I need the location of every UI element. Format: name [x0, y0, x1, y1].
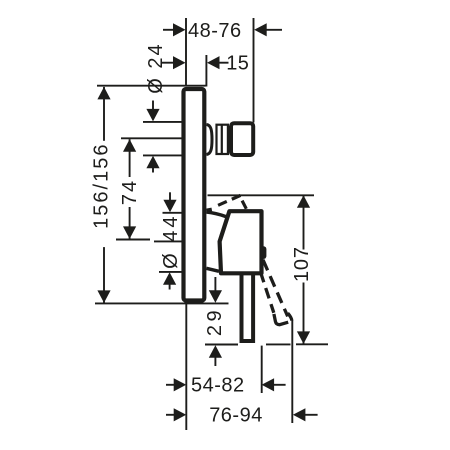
lever rod	[242, 266, 254, 341]
dim line 76-94 right tail	[304, 414, 318, 416]
tick handle axis	[154, 240, 182, 242]
ext line lever-down tip (76-94 right)	[291, 321, 293, 424]
tick knob top	[143, 121, 182, 123]
dim line O44 top tail	[169, 192, 171, 201]
svg-text:Ø 44: Ø 44	[160, 214, 182, 269]
ext line rod bottom right (107 bottom)	[296, 343, 328, 345]
svg-text:48-76: 48-76	[188, 20, 242, 42]
dim line 156/156 upper	[103, 87, 105, 141]
cone top	[206, 212, 226, 217]
dim line 15 right tail	[218, 62, 229, 64]
dim line 74 top	[129, 139, 131, 177]
arrow 15 right	[207, 56, 220, 69]
knob neck bulge	[207, 125, 213, 155]
arrow 54-82 right	[262, 378, 275, 391]
ext line plate front face (15 dim)	[205, 55, 207, 87]
svg-text:74: 74	[119, 179, 141, 205]
ext line plate bottom	[95, 302, 229, 304]
dashed lever up: tip dash at plate	[206, 209, 211, 210]
arrow 107 down	[297, 331, 310, 344]
ext line rod bottom left	[205, 344, 238, 346]
dashed lever down: tip cap	[274, 314, 288, 325]
tick 74 bottom	[116, 239, 150, 241]
ext line lever-up apex (107 top)	[208, 194, 315, 196]
handle body	[220, 211, 262, 273]
dim line O24 top tail	[152, 101, 154, 111]
dim line O24 bottom tail	[152, 167, 154, 173]
lever pivot nub	[260, 246, 266, 259]
arrow O24 up	[146, 156, 159, 169]
svg-text:107: 107	[291, 246, 313, 282]
arrow 107 up	[297, 195, 310, 208]
arrow O24 down	[146, 109, 159, 122]
ext line back face bottom (54-82/76-94 left)	[185, 304, 187, 431]
arrow 15 left	[173, 56, 186, 69]
tick handle top	[163, 212, 182, 214]
knob ring	[217, 125, 228, 154]
dim line 156/156 lower	[103, 247, 105, 303]
dim line 76-94 left tail	[166, 414, 174, 416]
dim line 54-82 left tail	[166, 384, 174, 386]
arrow 156 up	[97, 87, 110, 100]
ext line knob face (48-76 right)	[253, 18, 255, 123]
dashed lever down: tip right dash	[288, 313, 292, 321]
arrow 76-94 right	[293, 408, 306, 421]
dim line 74 bottom	[129, 207, 131, 239]
arrow 74 up	[123, 139, 136, 152]
dim line 29 top	[214, 277, 216, 291]
dim line O44 bottom tail	[169, 283, 171, 290]
knob head	[231, 123, 253, 155]
arrow 76-94 left	[174, 408, 187, 421]
dim line 48-76 right tail	[264, 29, 282, 31]
dashed lever down: left edge	[260, 272, 273, 313]
tick knob center	[121, 137, 182, 139]
arrow 48-76 left	[173, 23, 186, 36]
arrow 54-82 left	[174, 378, 187, 391]
arrow O44 up	[163, 272, 176, 285]
svg-text:54-82: 54-82	[191, 375, 245, 397]
tick handle bottom	[159, 271, 182, 273]
svg-text:29: 29	[204, 307, 226, 336]
dim line 54-82 right tail	[273, 384, 286, 386]
dim line 15 left tail	[161, 62, 174, 64]
dashed lever up: lower edge	[217, 195, 241, 206]
dashed lever up: end edge	[242, 201, 246, 209]
svg-text:76-94: 76-94	[209, 405, 263, 427]
dim line 29 bottom tail	[214, 357, 216, 367]
dashed lever down: right edge	[263, 260, 288, 317]
arrow 156 down	[97, 290, 110, 303]
arrow 74 down	[123, 226, 136, 239]
arrow 48-76 right	[254, 23, 267, 36]
ext line rod bottom mid	[266, 343, 291, 345]
svg-text:15: 15	[226, 53, 249, 75]
tick knob bottom	[143, 154, 182, 156]
knob stem	[221, 125, 223, 154]
dim line 107	[303, 195, 305, 249]
cone bottom	[206, 268, 219, 271]
svg-text:156/156: 156/156	[91, 143, 113, 229]
dim line 48-76 left tail	[163, 29, 175, 31]
escutcheon plate	[184, 89, 205, 301]
ext line rod axis right (54-82 right)	[261, 346, 263, 393]
svg-text:Ø 24: Ø 24	[145, 42, 167, 93]
ext line plate-top (156 top reference)	[97, 85, 206, 87]
arrow 29 down	[209, 290, 222, 303]
ext line wall/back face (48-76 left)	[185, 18, 187, 86]
arrow O44 down	[163, 200, 176, 213]
arrow 29 up	[209, 345, 222, 358]
